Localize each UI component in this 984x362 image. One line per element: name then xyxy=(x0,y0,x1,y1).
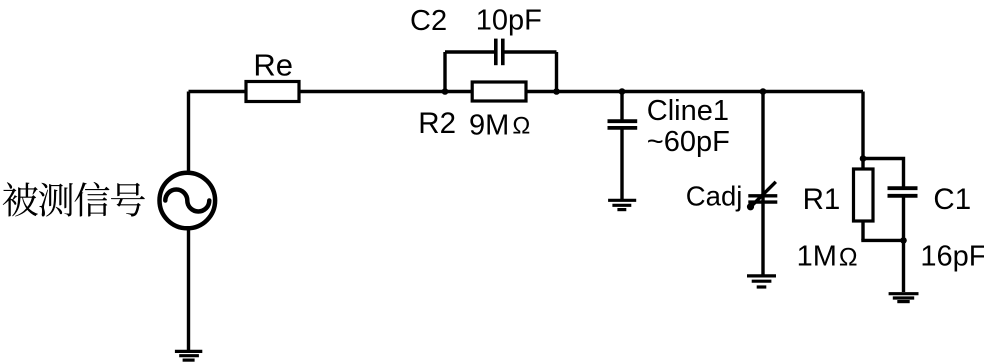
svg-text:Ω: Ω xyxy=(839,243,858,271)
ground (Cadj) xyxy=(747,276,776,287)
capacitor Cadj arrow xyxy=(751,182,776,207)
source V1 circle xyxy=(160,173,216,229)
wire Cadj vertical xyxy=(761,92,764,276)
svg-text:10pF: 10pF xyxy=(476,4,542,36)
svg-text:Cadj: Cadj xyxy=(686,181,743,212)
svg-text:C2: C2 xyxy=(410,5,447,37)
wire source bottom to ground xyxy=(187,228,190,351)
svg-text:Re: Re xyxy=(253,48,293,83)
ground (C1) xyxy=(889,294,919,302)
wire Cline1 top xyxy=(620,92,623,122)
wire right corner down xyxy=(861,92,864,170)
wire C2 loop top-left xyxy=(445,50,494,53)
wire bottom R1-C1 xyxy=(861,239,903,242)
junction dot at C2 right xyxy=(553,88,560,95)
junction dot at Cadj xyxy=(760,88,767,95)
resistor R1 xyxy=(854,169,874,221)
svg-text:Ω: Ω xyxy=(512,112,530,139)
wire C1 branch top xyxy=(863,159,904,189)
wire main horizontal xyxy=(189,90,864,93)
wire C2 loop right xyxy=(555,52,558,92)
svg-text:Cline1: Cline1 xyxy=(647,95,729,127)
capacitor C2 plates xyxy=(496,39,503,66)
svg-text:R1: R1 xyxy=(803,183,841,216)
svg-text:1M: 1M xyxy=(797,241,837,273)
ground (Cline1) xyxy=(608,200,636,209)
junction dot at R1/C1 bottom xyxy=(900,237,907,244)
wire Cline1 bottom to ground xyxy=(620,129,623,200)
ground (source) xyxy=(175,351,202,360)
wire C1 bottom to ground xyxy=(902,196,905,292)
resistor R2 xyxy=(472,82,526,101)
junction dot at C2 left xyxy=(442,88,449,95)
wire C2 loop top-right xyxy=(504,50,556,53)
resistor Re xyxy=(246,82,299,102)
wire left vertical to source xyxy=(187,92,190,174)
capacitor Cadj plates xyxy=(748,196,777,202)
wire R1 bottom xyxy=(861,221,864,240)
junction dot at R1/C1 top xyxy=(860,155,867,162)
capacitor Cline1 plates xyxy=(608,121,638,128)
svg-text:~60pF: ~60pF xyxy=(647,126,730,158)
svg-text:9M: 9M xyxy=(469,110,509,142)
junction dot at Cline1 xyxy=(619,88,626,95)
svg-text:16pF: 16pF xyxy=(920,241,984,273)
capacitor C1 plates xyxy=(888,188,918,196)
label CJK 被测信号 xyxy=(3,182,145,217)
svg-text:R2: R2 xyxy=(418,107,456,140)
svg-text:C1: C1 xyxy=(933,183,971,216)
wire C2 loop left xyxy=(443,52,446,92)
capacitor Cadj arrowhead xyxy=(747,203,754,210)
source sine wave xyxy=(165,190,209,212)
